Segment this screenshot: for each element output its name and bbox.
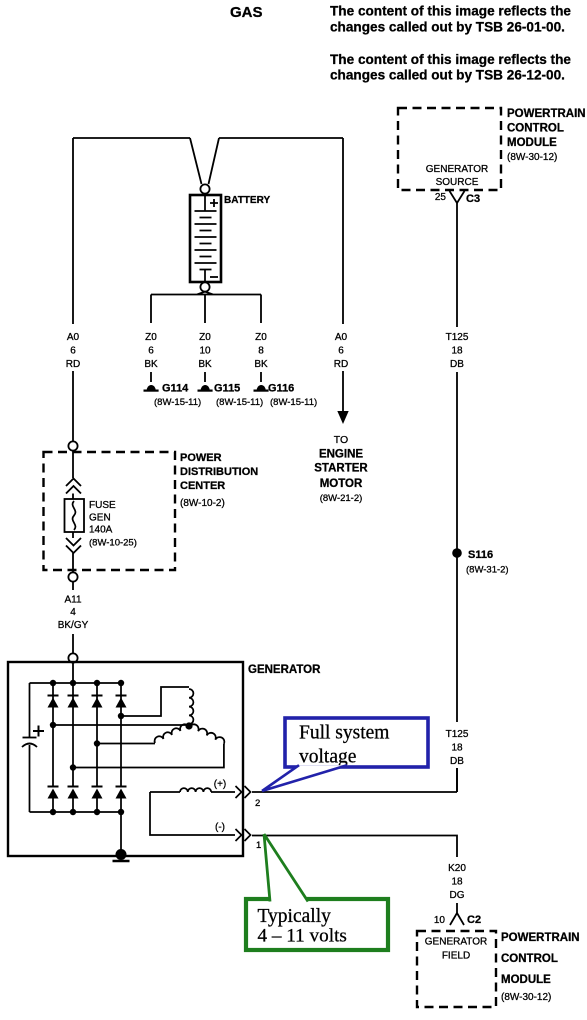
generator box [8, 662, 243, 856]
svg-text:18: 18 [451, 877, 463, 888]
svg-text:Z0: Z0 [255, 332, 267, 343]
connector C3 pin 25 [435, 191, 480, 205]
splice S116 [452, 548, 508, 575]
svg-text:10: 10 [434, 915, 446, 926]
svg-text:changes called out by TSB 26-0: changes called out by TSB 26-01-00. [330, 20, 565, 35]
PCM box bottom (dashed) [417, 931, 496, 1007]
connector circle PDC input [68, 441, 77, 450]
wire generator internal feed [72, 662, 74, 683]
svg-text:GENERATOR: GENERATOR [425, 937, 487, 948]
PCM box top (dashed) [398, 108, 501, 190]
svg-text:MOTOR: MOTOR [320, 478, 363, 490]
svg-text:DB: DB [450, 756, 464, 767]
svg-text:1: 1 [256, 840, 261, 851]
label POWERTRAIN CONTROL MODULE top [507, 108, 586, 163]
svg-text:S116: S116 [468, 549, 493, 561]
svg-text:6: 6 [148, 346, 154, 357]
svg-text:GENERATOR: GENERATOR [426, 164, 488, 175]
svg-text:18: 18 [451, 346, 463, 357]
svg-text:6: 6 [338, 346, 344, 357]
svg-text:K20: K20 [448, 863, 466, 874]
wire top rail from left A0 wire to battery positive [73, 138, 343, 184]
svg-text:Typically: Typically [258, 906, 332, 927]
svg-text:TO: TO [334, 434, 348, 446]
fuse GEN 140A with connector chevrons [65, 451, 137, 573]
diode D8 (bottom row) [116, 787, 127, 813]
svg-text:(8W-30-12): (8W-30-12) [507, 152, 557, 163]
svg-text:G116: G116 [268, 383, 294, 395]
stator winding phase C (to diode column 2) [70, 724, 225, 770]
svg-text:A11: A11 [64, 595, 81, 606]
connector circle generator input [68, 653, 77, 662]
field winding with terminals [150, 788, 235, 835]
svg-text:GAS: GAS [230, 4, 263, 21]
wire left A0 6 RD [66, 138, 80, 441]
svg-text:BK/GY: BK/GY [58, 620, 89, 631]
terminal 2 chevrons [236, 786, 261, 809]
svg-text:FIELD: FIELD [442, 951, 470, 962]
svg-text:(8W-30-12): (8W-30-12) [501, 992, 551, 1003]
svg-text:(8W-31-2): (8W-31-2) [466, 565, 509, 576]
svg-text:Full system: Full system [299, 723, 389, 744]
svg-text:(-): (-) [215, 822, 225, 833]
svg-text:The content of this image refl: The content of this image reflects the [330, 4, 571, 19]
stator winding phase A (from diode column 4) [118, 687, 194, 724]
diode D6 (bottom row) [68, 787, 79, 813]
svg-text:BK: BK [144, 359, 158, 370]
svg-text:2: 2 [255, 798, 260, 809]
svg-text:25: 25 [435, 192, 447, 203]
svg-text:FUSE: FUSE [89, 500, 116, 511]
svg-text:POWERTRAIN: POWERTRAIN [501, 932, 580, 944]
header note TSB 26-01-00 [330, 4, 571, 35]
svg-text:(8W-10-2): (8W-10-2) [180, 498, 225, 509]
label (-) [215, 822, 225, 833]
svg-text:18: 18 [451, 743, 463, 754]
ground G116 [254, 383, 318, 409]
callout box Full system voltage [285, 718, 428, 768]
svg-text:The content of this image refl: The content of this image reflects the [330, 52, 571, 67]
svg-text:(+): (+) [214, 779, 227, 790]
svg-text:ENGINE: ENGINE [319, 449, 363, 461]
svg-text:4: 4 [70, 607, 76, 618]
svg-text:(8W-15-11): (8W-15-11) [154, 397, 201, 408]
capacitor (generator suppression) [22, 683, 44, 812]
label (+) [214, 779, 227, 790]
svg-text:A0: A0 [67, 332, 80, 343]
wire Z0 8 BK to G116 [254, 295, 268, 383]
callout pointer to terminal 1 (green) [264, 834, 308, 902]
svg-text:(8W-15-11): (8W-15-11) [270, 397, 317, 408]
svg-text:changes called out by TSB 26-1: changes called out by TSB 26-12-00. [330, 68, 565, 83]
svg-text:DB: DB [450, 359, 464, 370]
svg-text:4 – 11 volts: 4 – 11 volts [258, 926, 347, 947]
header text GAS [230, 4, 263, 21]
svg-text:G114: G114 [162, 383, 189, 395]
svg-text:(8W-15-11): (8W-15-11) [216, 397, 263, 408]
label POWER DISTRIBUTION CENTER [180, 452, 258, 509]
svg-text:DISTRIBUTION: DISTRIBUTION [180, 466, 258, 478]
svg-text:RD: RD [66, 359, 80, 370]
diode D1 (top row) [48, 683, 59, 786]
battery B1 [190, 184, 221, 291]
wire Z0 6 BK to G114 [144, 295, 158, 383]
svg-text:CONTROL: CONTROL [501, 953, 558, 965]
svg-text:BATTERY: BATTERY [224, 195, 270, 206]
text TO ENGINE STARTER MOTOR [314, 434, 368, 504]
stator winding phase B (to diode column 3) [94, 724, 189, 746]
wire Z0 10 BK to G115 [198, 295, 212, 383]
wire T125 18 DB upper [446, 203, 469, 550]
wire A11 4 BK/GY [58, 582, 89, 654]
diode D5 (bottom row) [48, 787, 59, 813]
svg-text:A0: A0 [335, 332, 348, 343]
svg-text:STARTER: STARTER [314, 463, 368, 475]
diode D4 (top row) [116, 683, 127, 786]
callout box Typically 4-11 volts [246, 899, 388, 950]
svg-text:MODULE: MODULE [501, 974, 551, 986]
svg-text:(8W-21-2): (8W-21-2) [320, 493, 363, 504]
label POWERTRAIN CONTROL MODULE bottom [501, 932, 580, 1003]
label GENERATOR [248, 664, 321, 676]
svg-text:MODULE: MODULE [507, 137, 557, 149]
svg-text:G115: G115 [214, 383, 240, 395]
svg-text:CONTROL: CONTROL [507, 123, 564, 135]
diode D7 (bottom row) [92, 787, 103, 813]
wire terminal 2 to T125 [252, 768, 457, 792]
diode D3 (top row) [92, 683, 103, 786]
wire rectifier top bus [30, 680, 125, 686]
svg-text:BK: BK [254, 359, 268, 370]
wire star point from diode column 1 [50, 722, 193, 730]
header note TSB 26-12-00 [330, 52, 571, 83]
svg-text:DG: DG [450, 890, 465, 901]
ground G114 [144, 383, 202, 409]
svg-text:8: 8 [258, 346, 264, 357]
svg-text:(8W-10-25): (8W-10-25) [89, 538, 137, 549]
wire rectifier bottom bus [30, 809, 125, 815]
svg-text:140A: 140A [89, 525, 113, 536]
wire right A0 6 RD to starter motor [334, 138, 349, 424]
svg-text:Z0: Z0 [145, 332, 157, 343]
svg-text:GEN: GEN [89, 513, 111, 524]
svg-text:Z0: Z0 [199, 332, 211, 343]
label BATTERY [224, 195, 270, 206]
svg-text:BK: BK [198, 359, 212, 370]
svg-text:voltage: voltage [299, 747, 356, 768]
svg-text:GENERATOR: GENERATOR [248, 664, 321, 676]
terminal 1 chevrons [236, 829, 262, 851]
generator internal ground [113, 812, 130, 861]
callout pointer to terminal 2 (blue) [262, 765, 347, 791]
wire terminal 1 to K20 [252, 836, 466, 914]
PDC dashed box [44, 452, 176, 570]
svg-text:10: 10 [199, 346, 211, 357]
svg-text:T125: T125 [446, 332, 469, 343]
connector C2 pin 10 [434, 913, 481, 926]
svg-text:C2: C2 [467, 914, 481, 926]
svg-text:RD: RD [334, 359, 348, 370]
svg-text:C3: C3 [466, 193, 480, 205]
diode D2 (top row) [68, 683, 79, 786]
wire T125 18 DB lower [446, 557, 469, 792]
svg-text:T125: T125 [446, 729, 469, 740]
svg-text:6: 6 [70, 346, 76, 357]
connector circle PDC output [68, 572, 77, 581]
svg-text:SOURCE: SOURCE [436, 177, 479, 188]
wire battery negative bus [151, 292, 261, 295]
svg-text:CENTER: CENTER [180, 480, 225, 492]
svg-text:POWERTRAIN: POWERTRAIN [507, 108, 586, 120]
svg-text:POWER: POWER [180, 452, 222, 464]
ground G115 [198, 383, 264, 409]
